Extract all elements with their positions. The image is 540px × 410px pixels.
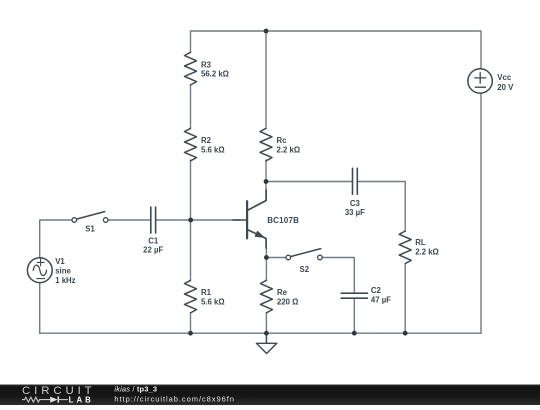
svg-text:Rc: Rc	[277, 136, 288, 145]
svg-text:C1: C1	[148, 236, 159, 245]
wire Vcc bottom to bottom right corner	[480, 93, 482, 333]
transistor Q1 base lead	[233, 219, 247, 221]
wire V1 top loop to S1	[40, 220, 75, 258]
svg-text:2.2 kΩ: 2.2 kΩ	[277, 145, 301, 154]
wire S1 to C1	[106, 219, 150, 221]
transistor Q1 emitter arrow	[255, 231, 264, 237]
wire R1 bottom to ground rail	[190, 313, 192, 333]
capacitor C3	[353, 168, 358, 194]
source Vcc circle	[468, 69, 492, 93]
node Re ground	[264, 331, 269, 336]
transistor Q1 BC107B bar	[246, 201, 248, 238]
wire Re bottom to ground rail	[265, 313, 267, 333]
source V1 sine	[33, 265, 46, 275]
logo resistor squiggle	[22, 397, 50, 402]
resistor Re	[260, 280, 272, 313]
capacitor C2	[341, 293, 367, 298]
wire top rail R3 top to Vcc top	[191, 31, 482, 69]
wire bottom ground rail	[40, 332, 481, 334]
svg-text:BC107B: BC107B	[267, 216, 299, 225]
wire C1 to base node to Q1 base	[156, 219, 240, 221]
svg-text:56.2 kΩ: 56.2 kΩ	[201, 70, 229, 79]
node RL ground	[403, 331, 408, 336]
svg-text:R2: R2	[201, 136, 212, 145]
svg-text:Vcc: Vcc	[497, 73, 512, 82]
node C2 ground	[352, 331, 357, 336]
svg-text:ikias / tp3_3: ikias / tp3_3	[114, 384, 157, 393]
transistor Q1 emitter	[247, 230, 266, 249]
svg-text:1 kHz: 1 kHz	[55, 276, 75, 285]
svg-text:R1: R1	[201, 288, 212, 297]
resistor R1	[185, 280, 197, 313]
svg-text:22 µF: 22 µF	[143, 246, 163, 255]
switch S1 lever	[76, 212, 104, 220]
wire V1 bottom to ground rail	[39, 283, 41, 334]
source V1 minus	[37, 278, 45, 280]
svg-text:S2: S2	[300, 265, 310, 274]
logo diode	[50, 397, 57, 403]
source V1 plus	[37, 259, 44, 266]
resistor RL	[399, 231, 411, 264]
svg-text:http://circuitlab.com/c8x96fn: http://circuitlab.com/c8x96fn	[114, 394, 235, 403]
node top rail / Rc column	[264, 29, 269, 34]
wire C3 to RL top	[358, 182, 405, 232]
wire Rc bottom to collector node	[265, 160, 267, 190]
footer bar	[0, 385, 540, 406]
ground	[265, 333, 267, 343]
node base	[188, 218, 193, 223]
resistor R3	[185, 52, 197, 85]
wire emitter node to S2	[266, 248, 288, 258]
svg-text:20 V: 20 V	[497, 83, 514, 92]
svg-text:5.6 kΩ: 5.6 kΩ	[201, 297, 225, 306]
wire RL bottom to ground rail	[404, 264, 406, 334]
transistor Q1 collector	[247, 190, 266, 211]
wire S2 to C2 top	[320, 258, 354, 293]
svg-text:LAB: LAB	[69, 396, 94, 405]
capacitor C1	[151, 207, 156, 233]
svg-text:2.2 kΩ: 2.2 kΩ	[415, 248, 439, 257]
resistor Rc	[260, 128, 272, 161]
svg-text:V1: V1	[55, 257, 65, 266]
wire Rc top to top rail	[265, 31, 267, 128]
svg-text:C2: C2	[371, 286, 382, 295]
source Vcc plus	[475, 73, 486, 84]
wire R2 bottom through base node to R1 top	[190, 160, 192, 280]
source V1 circle	[27, 258, 52, 283]
wire C2 bottom to ground rail	[353, 299, 355, 333]
switch S2 terminal circles	[286, 255, 291, 260]
source Vcc minus	[475, 86, 485, 88]
wire collector node to C3	[266, 181, 352, 183]
wire R3 bottom to R2 top	[190, 85, 192, 128]
resistor R2	[185, 128, 197, 161]
svg-text:S1: S1	[85, 225, 95, 234]
switch S1 terminal circles	[72, 218, 77, 223]
svg-text:C3: C3	[350, 199, 361, 208]
node collector	[264, 179, 269, 184]
svg-text:Re: Re	[277, 288, 288, 297]
svg-text:33 µF: 33 µF	[345, 208, 365, 217]
node emitter	[264, 255, 269, 260]
svg-text:sine: sine	[55, 267, 71, 276]
svg-text:47 µF: 47 µF	[371, 295, 391, 304]
svg-text:RL: RL	[415, 238, 426, 247]
wire emitter node to Re top	[265, 258, 267, 281]
switch S2 lever	[290, 249, 320, 257]
svg-text:220 Ω: 220 Ω	[277, 297, 298, 306]
node R1 ground	[188, 331, 193, 336]
svg-text:5.6 kΩ: 5.6 kΩ	[201, 145, 225, 154]
svg-text:R3: R3	[201, 60, 212, 69]
